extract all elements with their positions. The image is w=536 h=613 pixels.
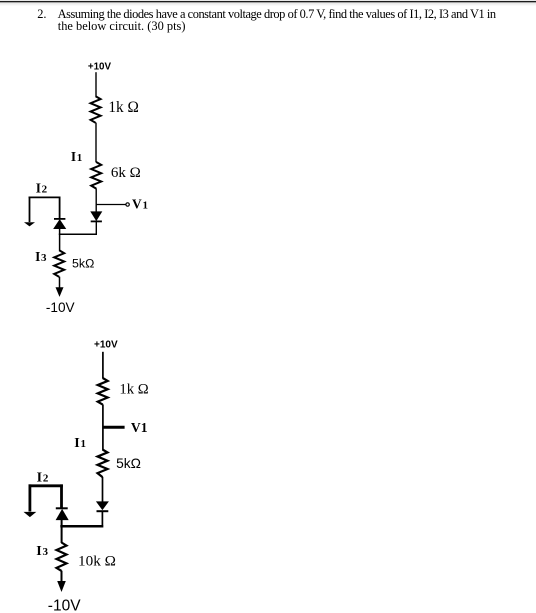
diode D3 down-pointing (circuit 2)	[97, 502, 109, 511]
diode D1 down-pointing (circuit 1)	[91, 212, 102, 222]
svg-text:I1: I1	[71, 149, 82, 164]
svg-text:1k Ω: 1k Ω	[119, 381, 148, 397]
resistor 5k ohm (circuit 1)	[54, 250, 64, 277]
wire from I2 bend to diode D2 (circuit 1)	[59, 197, 61, 219]
svg-text:1k Ω: 1k Ω	[108, 99, 138, 116]
top border line	[0, 1, 536, 3]
svg-text:+10V: +10V	[94, 340, 118, 351]
arrowhead to -10V (circuit 1)	[56, 287, 64, 297]
diode D2 up-pointing (circuit 1)	[54, 219, 66, 229]
resistor 5k ohm (circuit 2)	[98, 450, 108, 478]
wire from I2 bend to diode D4 (circuit 2)	[60, 484, 63, 508]
svg-text:2.: 2.	[37, 7, 46, 21]
svg-text:I2: I2	[37, 471, 49, 486]
wire from 5k resistor to -10V arrow	[59, 277, 61, 289]
wire I2 horizontal (circuit 1)	[29, 196, 61, 198]
wire from diode D1 to bottom junction	[95, 221, 97, 235]
svg-text:-10V: -10V	[48, 597, 81, 613]
wire from diode D4 to 10k resistor (circuit 2)	[61, 520, 63, 543]
svg-text:10k Ω: 10k Ω	[78, 553, 116, 570]
wire from +10V to 1k resistor (circuit 2)	[102, 352, 104, 379]
wire from 5k resistor to diode D3 (circuit 2)	[102, 477, 104, 503]
svg-text:the below circuit. (30 pts): the below circuit. (30 pts)	[58, 19, 186, 33]
diode D4 up-pointing (circuit 2)	[56, 508, 68, 519]
wire I2 vertical (circuit 1)	[29, 197, 31, 223]
top border shading	[0, 2, 536, 6]
svg-text:I1: I1	[74, 436, 86, 451]
wire from diode D2 to 5k resistor	[59, 229, 61, 251]
wire I2 vertical (circuit 2)	[28, 484, 31, 511]
wire from 6k resistor to diode D1	[95, 188, 97, 212]
svg-text:I2: I2	[36, 181, 48, 196]
svg-text:V1: V1	[131, 420, 148, 435]
svg-text:I3: I3	[36, 544, 48, 559]
svg-text:6k Ω: 6k Ω	[111, 165, 141, 181]
resistor 1k ohm (circuit 2)	[98, 378, 108, 405]
resistor 10k ohm (circuit 2)	[57, 543, 67, 571]
svg-text:+10V: +10V	[88, 61, 112, 72]
arrowhead I2 (circuit 1)	[24, 222, 35, 226]
svg-text:I3: I3	[35, 249, 47, 264]
wire from 1k resistor to 6k resistor	[95, 123, 97, 163]
wire V1 tap (circuit 1)	[96, 204, 126, 206]
wire from diode D3 to junction (circuit 2)	[101, 511, 103, 527]
wire I2 horizontal (circuit 2)	[29, 484, 63, 487]
arrowhead to -10V (circuit 2)	[57, 581, 66, 592]
resistor 6k ohm (circuit 1)	[91, 162, 101, 189]
svg-text:5kΩ: 5kΩ	[72, 257, 94, 271]
svg-text:-10V: -10V	[46, 300, 75, 315]
open terminal circle V1 (circuit 1)	[126, 203, 129, 206]
wire horizontal junction (circuit 1)	[59, 233, 97, 235]
wire from +10V to 1k resistor	[95, 72, 97, 96]
wire horizontal junction (circuit 2)	[60, 525, 103, 528]
resistor 1k ohm (circuit 1)	[91, 96, 101, 123]
wire from 10k resistor to -10V arrow (circuit 2)	[61, 571, 63, 583]
node tap V1 thick (circuit 2)	[103, 426, 125, 429]
wire from 1k resistor to 5k resistor (circuit 2)	[102, 404, 104, 450]
svg-text:5kΩ: 5kΩ	[116, 456, 141, 471]
svg-text:V1: V1	[132, 196, 148, 211]
arrowhead I2 (circuit 2)	[24, 512, 37, 517]
